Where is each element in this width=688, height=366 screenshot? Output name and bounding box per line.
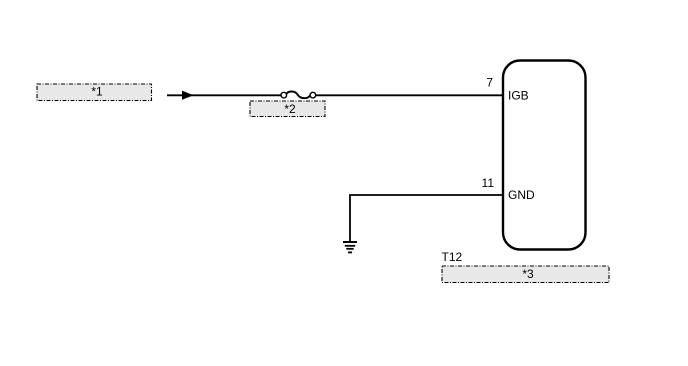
wire: source to fuse [167, 94, 285, 96]
svg-text:IGB: IGB [508, 88, 529, 102]
wire: fuse to IGB pin [311, 94, 503, 96]
label box *2 [250, 101, 325, 117]
ground [343, 242, 357, 252]
svg-text:GND: GND [508, 188, 535, 202]
label box *3 [442, 266, 609, 283]
wire: GND pin to ground [350, 195, 503, 242]
svg-text:*2: *2 [284, 102, 296, 116]
arrow (current flow) [182, 91, 194, 100]
svg-text:*1: *1 [91, 85, 103, 99]
svg-text:7: 7 [486, 76, 493, 90]
fuse (fusible link) [281, 91, 316, 98]
component U1 (ECU connector T12) [503, 61, 586, 250]
svg-text:*3: *3 [522, 267, 534, 281]
svg-text:T12: T12 [442, 250, 463, 264]
svg-text:11: 11 [482, 176, 495, 190]
label box *1 [37, 84, 152, 101]
